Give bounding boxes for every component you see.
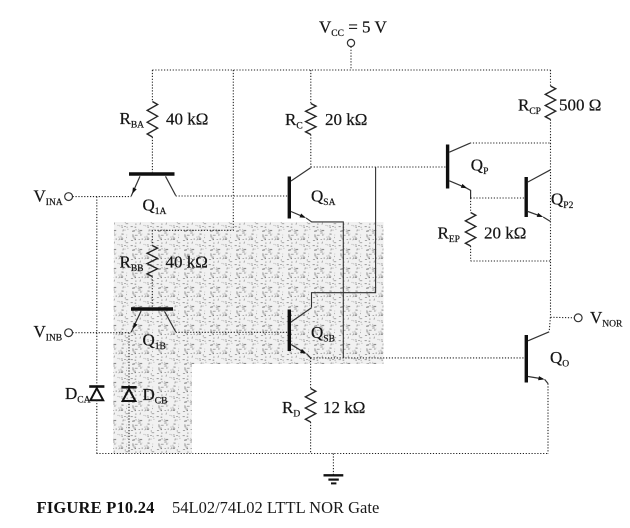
resistor RCP — [550, 70, 552, 86]
wire RC branch — [310, 70, 312, 104]
wire VINA to DCA — [96, 197, 98, 386]
resistor RBB — [151, 230, 153, 245]
transistor QP — [446, 145, 449, 189]
wire QSB emitter to QO base — [311, 357, 525, 359]
ground — [332, 454, 334, 475]
wire REP bottom to rail — [471, 260, 551, 262]
wire Q1B collector to QSB base — [176, 331, 288, 333]
transistor QO — [525, 335, 528, 383]
wire right rail down to output node — [550, 143, 552, 317]
node VCC terminal — [347, 39, 354, 46]
resistor RBA — [147, 102, 157, 138]
wire bottom ground rail — [97, 453, 549, 455]
diode DCA — [89, 385, 104, 388]
wire VINA input — [73, 196, 132, 198]
svg-text:12 kΩ: 12 kΩ — [323, 398, 365, 417]
node VNOR terminal — [574, 314, 582, 322]
svg-text:VCC = 5 V: VCC = 5 V — [319, 17, 387, 39]
wire VCC feed for RBB — [152, 70, 233, 230]
wire top VCC rail — [152, 69, 550, 71]
svg-text:20 kΩ: 20 kΩ — [325, 110, 367, 129]
stippled highlight region — [113, 222, 384, 454]
wire DCB to ground rail — [128, 401, 130, 454]
transistor QSA — [288, 177, 291, 219]
wire RC node to QP base — [311, 166, 446, 168]
svg-text:FIGURE P10.24: FIGURE P10.24 — [37, 498, 155, 517]
wire RBB to Q1B base — [151, 277, 153, 308]
resistor RD — [310, 358, 312, 389]
wire RBA to Q1A base — [151, 137, 153, 172]
wire DCA to ground rail — [96, 400, 98, 453]
wire QP emitter to QP2 base — [471, 197, 525, 199]
wire QP collector to rail — [470, 142, 551, 144]
diode DCB — [121, 386, 136, 389]
svg-text:54L02/74L02 LTTL NOR Gate: 54L02/74L02 LTTL NOR Gate — [172, 498, 379, 517]
wire VCC stub — [350, 47, 352, 70]
wire VINB input — [73, 332, 131, 334]
wire output node to terminal — [551, 316, 575, 319]
wire RBA branch — [151, 70, 153, 102]
transistor Q1A — [129, 172, 175, 175]
wire VINB to DCB — [128, 333, 130, 386]
transistor Q1B — [131, 307, 173, 310]
wire QSA emitter path — [306, 218, 343, 358]
wire Q1A collector to QSA base — [176, 195, 288, 197]
wire rail to QO collector — [549, 317, 550, 331]
resistor REP — [470, 198, 472, 213]
svg-text:20 kΩ: 20 kΩ — [484, 224, 526, 243]
svg-text:40 kΩ: 40 kΩ — [166, 110, 208, 129]
resistor RC — [306, 104, 316, 135]
transistor QSB — [288, 310, 291, 352]
wire QSB collector riser — [312, 167, 376, 308]
transistor QP2 — [525, 177, 528, 217]
svg-text:500 Ω: 500 Ω — [559, 96, 601, 115]
svg-text:40 kΩ: 40 kΩ — [166, 253, 208, 272]
